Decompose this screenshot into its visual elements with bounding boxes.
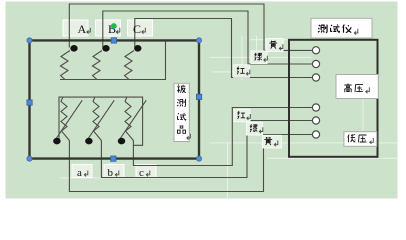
junction dot A [70, 45, 77, 52]
label cell A [63, 20, 88, 36]
label text 绿 (bottom) [250, 124, 257, 132]
label cell a [72, 165, 92, 178]
bottom bus wire [30, 157, 200, 159]
terminal 5 [312, 117, 319, 124]
selection handle (blue circle) top-right [196, 38, 201, 43]
wire phase a lead to tester terminal 6 [69, 135, 312, 192]
label box 绿 (bottom) [247, 123, 263, 136]
label cell b [104, 165, 124, 178]
tap diagonal phase a [56, 100, 82, 138]
left bus wire [28, 40, 30, 158]
faint table gridlines [60, 36, 397, 198]
selection handle (blue circle) bottom-left [27, 156, 32, 161]
winding W4 (phase a zigzag) [61, 97, 69, 140]
junction dot b [85, 138, 92, 145]
winding W5 (phase b zigzag) [93, 97, 101, 140]
tap diagonal phase c [120, 100, 146, 138]
label box 高压 [336, 75, 378, 99]
wire phase c lead to tester terminal 4 [133, 108, 312, 166]
selection handle (blue square) left bus [27, 100, 32, 105]
tester box U1 [289, 40, 378, 157]
tap diagonal phase b [88, 100, 114, 138]
selection handle (blue circle) bottom-right [196, 156, 201, 161]
wire phase b lead to tester terminal 5 [101, 121, 312, 178]
selection handle (blue square) top bus [111, 38, 116, 43]
label text 高压 [344, 84, 363, 93]
winding W2 (phase B zigzag) [93, 51, 103, 80]
terminal 4 [312, 104, 319, 111]
winding W6 (phase c zigzag) [125, 97, 133, 140]
terminal 2 [312, 60, 319, 67]
selection handle (blue square) bottom bus [111, 156, 116, 161]
label cell c [136, 165, 156, 178]
neutral link of top windings [60, 41, 166, 80]
junction dot a [53, 138, 60, 145]
label box 黄 (top) [266, 39, 283, 52]
junction dot C [134, 45, 141, 52]
label text 红 (bottom) [238, 111, 246, 119]
terminal 1 [312, 47, 319, 54]
svg-text:b: b [108, 167, 114, 179]
label text 被测试品 (vertical) [177, 85, 186, 134]
label box 低压 [344, 132, 377, 147]
selection handle (blue square) right bus [196, 94, 201, 99]
connection point (green dot) at B [111, 24, 116, 29]
winding W3 (phase C zigzag) [125, 51, 135, 80]
drawing canvas background [6, 2, 398, 199]
selection handle (blue circle) top-left [27, 38, 32, 43]
wire phase C tap: dot up over to tester terminal 3 [135, 19, 313, 78]
label box 绿 (top) [251, 51, 267, 64]
label box 黄 (bottom) [262, 135, 281, 148]
label text 测试仪 [318, 24, 351, 32]
wire phase B tap: dot up over to tester terminal 2 [103, 11, 313, 64]
label box 测试仪 [311, 18, 372, 38]
label cell C [128, 20, 153, 36]
junction dot B [102, 45, 109, 52]
winding W1 (phase A zigzag) [61, 51, 71, 80]
right bus wire [198, 40, 200, 158]
terminal 3 [312, 74, 319, 81]
svg-text:C: C [133, 22, 141, 36]
label text 绿 (top) [255, 53, 262, 61]
label text 红 (top) [237, 67, 245, 75]
junction dot c [118, 138, 125, 145]
label cell B [96, 20, 121, 36]
secondary winding box [59, 97, 143, 145]
label text 黄 (top) [269, 41, 277, 49]
terminal 6 [312, 131, 319, 138]
svg-text:a: a [77, 167, 82, 179]
svg-text:c: c [139, 167, 144, 179]
label text 黄 (bottom) [264, 137, 272, 145]
wire phase A tap: dot up over to tester terminal 1 [69, 4, 312, 50]
top bus wire [30, 39, 200, 41]
label box 被测试品 [174, 83, 189, 141]
label box 红 (top) [234, 65, 250, 78]
label box 红 (bottom) [234, 109, 250, 122]
label text 低压 [348, 134, 367, 142]
svg-text:A: A [78, 22, 87, 36]
